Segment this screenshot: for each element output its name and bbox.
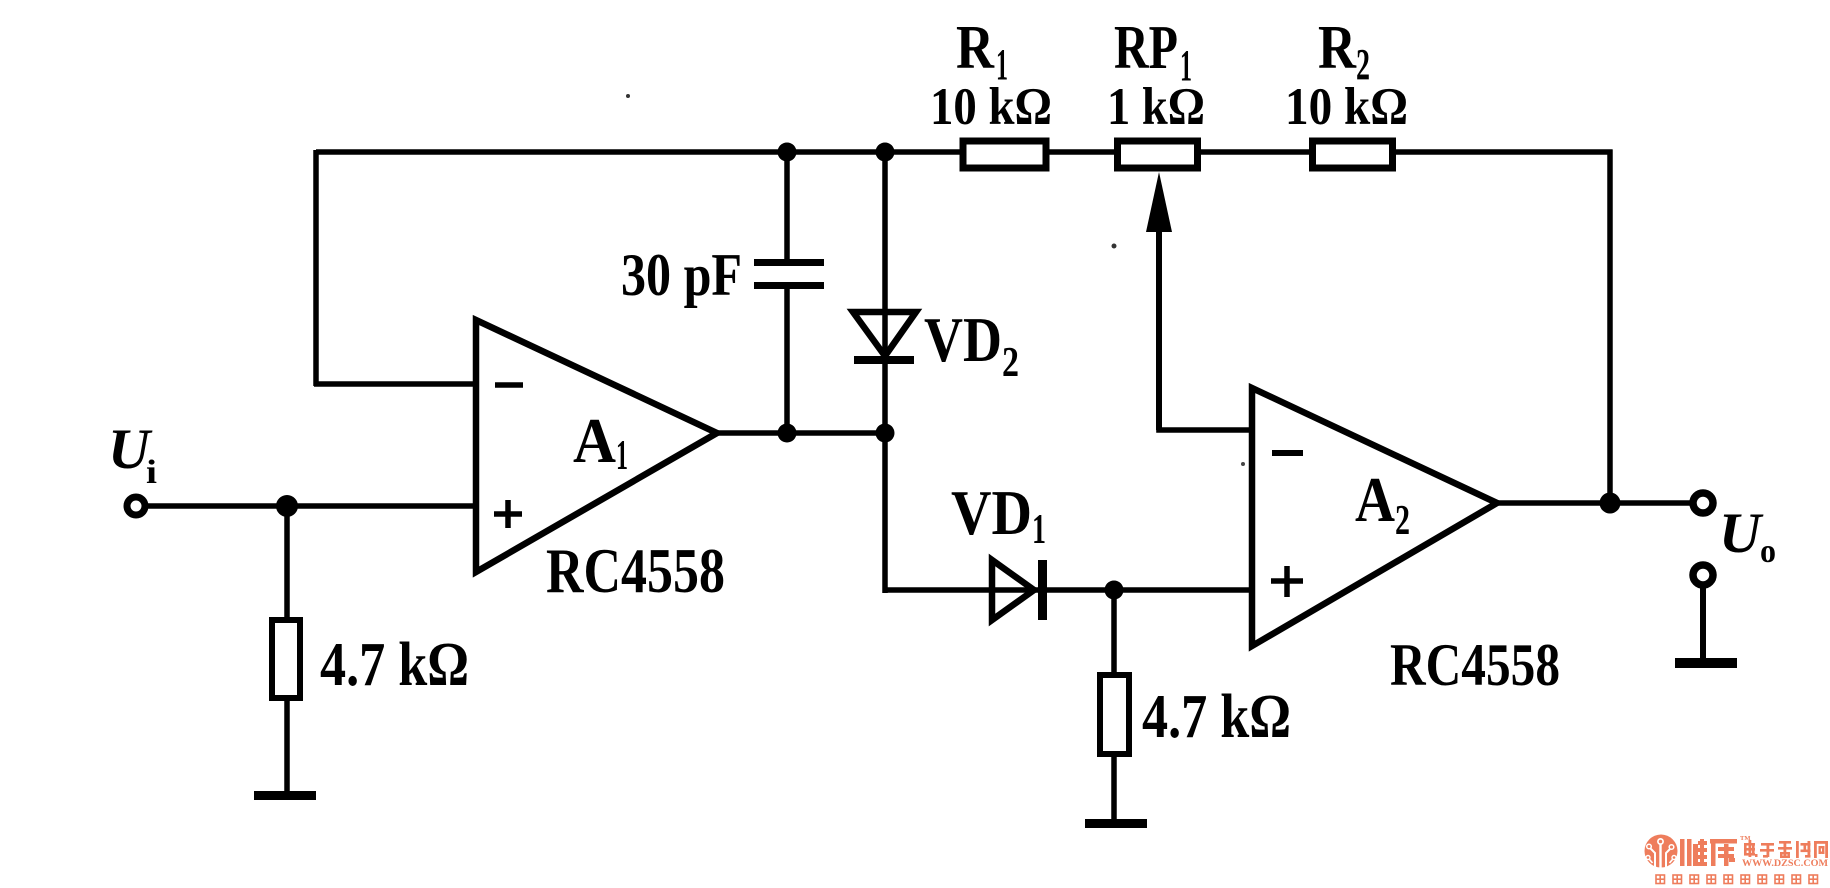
node output junction: [1600, 493, 1621, 514]
svg-text:o: o: [1760, 533, 1776, 570]
node cap bottom: [778, 424, 797, 443]
svg-text:1: 1: [1032, 507, 1046, 553]
watermark logo circle: [1645, 835, 1678, 870]
wire to A1 inverting input: [314, 381, 477, 387]
svg-text:WWW.DZSC.COM: WWW.DZSC.COM: [1742, 858, 1829, 868]
scan speck: [626, 94, 630, 98]
node cap top: [778, 143, 797, 162]
svg-text:4.7 kΩ: 4.7 kΩ: [320, 631, 469, 699]
A1 inverting input minus mark: [495, 382, 523, 388]
watermark char ku: [1710, 839, 1737, 866]
svg-text:U: U: [1719, 502, 1764, 565]
svg-text:i: i: [146, 454, 157, 491]
svg-text:1 kΩ: 1 kΩ: [1107, 78, 1205, 136]
watermark chars dian zi shi chang wang: [1744, 840, 1828, 858]
svg-text:2: 2: [1395, 498, 1410, 544]
op-amp A2: [1252, 388, 1497, 646]
node input junction: [276, 495, 298, 517]
wire input Ui to A1 non-inverting input: [148, 503, 477, 509]
svg-text:R: R: [956, 14, 995, 82]
terminal Uo: [1693, 493, 1713, 513]
wire right vertical from top bus: [1607, 150, 1613, 506]
wire wiper to A2 inverting input: [1156, 427, 1252, 433]
capacitor 30pF plates: [754, 259, 824, 266]
A2 non-inverting input plus mark: [1271, 566, 1303, 597]
wire A2 output: [1495, 500, 1694, 506]
svg-text:A: A: [573, 405, 616, 476]
wire resistor to ground (mid): [1111, 755, 1117, 824]
node VD2 top: [876, 143, 895, 162]
svg-text:4.7 kΩ: 4.7 kΩ: [1142, 683, 1291, 751]
svg-text:10 kΩ: 10 kΩ: [930, 78, 1052, 136]
wire junction down to 4.7k resistor: [284, 506, 290, 620]
wire terminal to ground (right): [1700, 585, 1706, 663]
diode VD1 (horizontal, cathode right): [992, 560, 1034, 620]
resistor 4.7k (mid): [1100, 675, 1129, 754]
svg-text:RP: RP: [1114, 14, 1178, 82]
ground (left): [254, 791, 316, 800]
svg-text:R: R: [1318, 14, 1357, 82]
diode VD2 (vertical, cathode down): [882, 152, 888, 433]
RP1 wiper arrow: [1156, 205, 1162, 430]
terminal Ui: [127, 497, 145, 515]
resistor R1: [963, 141, 1046, 168]
svg-text:VD: VD: [951, 478, 1032, 548]
resistor 4.7k (left): [272, 620, 300, 698]
wire top feedback bus: [316, 149, 1613, 155]
svg-text:A: A: [1355, 464, 1395, 535]
svg-text:RC4558: RC4558: [546, 536, 725, 606]
ground (right): [1675, 658, 1737, 668]
potentiometer RP1: [1118, 141, 1198, 168]
wire 4.7k resistor to ground: [284, 699, 290, 795]
svg-text:VD: VD: [924, 305, 1002, 375]
wire VD2 node down and right to VD1: [882, 433, 888, 593]
resistor R2: [1313, 141, 1393, 168]
terminal ground side: [1693, 565, 1713, 585]
ground (mid): [1085, 819, 1147, 828]
svg-text:10 kΩ: 10 kΩ: [1285, 78, 1408, 136]
A1 non-inverting input plus mark: [494, 500, 522, 528]
node VD1 output junction: [1105, 581, 1124, 600]
scan speck: [1112, 244, 1117, 249]
op-amp A1: [476, 320, 717, 572]
A2 inverting input minus mark: [1272, 450, 1303, 456]
svg-text:2: 2: [1002, 340, 1019, 386]
scan speck: [1241, 462, 1245, 466]
wire A1 output: [715, 430, 888, 436]
capacitor 30pF leads: [784, 152, 790, 260]
watermark bottom slogan chars: [1656, 875, 1818, 884]
wire junction down to 4.7k resistor (mid): [1111, 590, 1117, 674]
wire left feedback vertical: [313, 150, 319, 386]
watermark char wei: [1680, 839, 1707, 866]
svg-text:30 pF: 30 pF: [621, 242, 742, 308]
svg-text:RC4558: RC4558: [1390, 632, 1560, 698]
svg-text:1: 1: [616, 433, 628, 479]
node VD2 bottom: [876, 424, 895, 443]
